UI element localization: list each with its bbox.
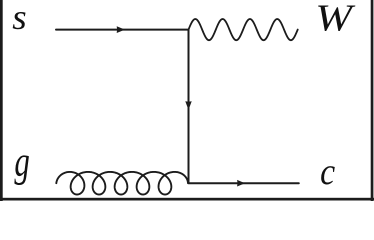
svg-text:c: c [320, 150, 335, 192]
svg-text:g: g [14, 139, 29, 186]
svg-text:W: W [315, 0, 356, 39]
svg-text:s: s [12, 0, 26, 37]
